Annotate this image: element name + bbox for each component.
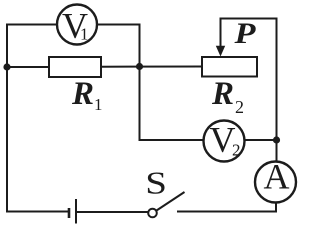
wire bottom left to battery [7, 211, 67, 213]
wire right rail to ammeter top [276, 19, 278, 162]
potentiometer R2 [202, 57, 257, 117]
svg-text:1: 1 [80, 25, 89, 44]
wire wiper vertical [220, 19, 222, 49]
svg-text:R: R [211, 76, 234, 112]
voltmeter V1 [57, 5, 97, 46]
node C (V2 / right rail junction) [273, 136, 280, 143]
wire corner down to node B [139, 25, 141, 67]
battery (cell) [69, 199, 76, 224]
wire V2 left lead [140, 139, 204, 141]
wire V2 right lead to node C [245, 139, 277, 141]
node A (left rail / R1 junction) [3, 63, 10, 70]
svg-text:A: A [264, 157, 290, 197]
wire R1 right to R2 left [101, 66, 202, 68]
wire node B down to V2 level [139, 67, 141, 141]
svg-text:P: P [233, 17, 256, 50]
svg-text:2: 2 [232, 141, 241, 160]
svg-text:2: 2 [235, 97, 244, 117]
switch S [145, 165, 184, 217]
wiper arrow P [216, 17, 256, 57]
ammeter A [255, 157, 296, 203]
wire V1 right to corner [97, 24, 140, 26]
wire wiper top horizontal [221, 18, 277, 20]
wire node A to R1 left [7, 66, 49, 68]
wire top-left to V1 [7, 24, 57, 26]
svg-text:S: S [145, 165, 167, 201]
wire bottom right segment [178, 211, 276, 213]
svg-text:R: R [71, 76, 94, 112]
node B (V1 / R1 / R2 / V2 junction) [136, 63, 143, 70]
svg-text:1: 1 [94, 95, 103, 114]
wire left rail [6, 25, 8, 212]
wire battery to switch [78, 211, 148, 213]
wire ammeter bottom [275, 203, 277, 212]
resistor R1 [49, 57, 103, 114]
voltmeter V2 [204, 120, 245, 162]
